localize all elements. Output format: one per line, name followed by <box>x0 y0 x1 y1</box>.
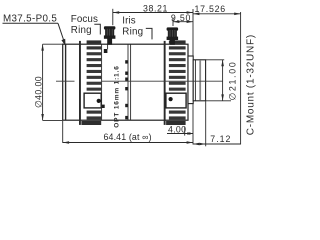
svg-text:64.41 (at ∞): 64.41 (at ∞) <box>104 132 152 142</box>
label Focus Ring <box>71 14 101 36</box>
dimension 4.00 <box>167 125 193 136</box>
image plane line <box>240 12 242 144</box>
svg-text:17.526: 17.526 <box>195 4 226 14</box>
focus ring <box>79 40 101 125</box>
svg-text:7.12: 7.12 <box>210 134 231 144</box>
label Iris Ring <box>122 15 152 39</box>
dimension dia 40.00 <box>34 44 63 120</box>
screw index line <box>107 45 109 50</box>
dimension dia 21.00 <box>206 60 238 101</box>
dimension 38.21 <box>113 4 193 26</box>
centerline <box>56 80 223 82</box>
svg-text:OPT 16mm 1:1.6: OPT 16mm 1:1.6 <box>113 65 120 127</box>
svg-text:M37.5-P0.5: M37.5-P0.5 <box>3 13 57 24</box>
svg-text:C-Mount (1-32UNF): C-Mount (1-32UNF) <box>246 34 257 135</box>
main barrel body <box>63 44 188 120</box>
svg-text:∅21.00: ∅21.00 <box>228 61 238 101</box>
dimension 7.12 <box>193 101 241 146</box>
svg-text:Focus: Focus <box>71 14 98 25</box>
iris ring <box>164 40 186 125</box>
aperture scale marks <box>125 60 128 119</box>
svg-text:Ring: Ring <box>122 27 143 38</box>
flange face extension line <box>192 9 194 56</box>
svg-text:Iris: Iris <box>122 15 135 26</box>
dimension 17.526 <box>193 4 241 15</box>
barrel section line after focus ring <box>101 44 103 120</box>
iris lock screw <box>167 27 179 44</box>
label M37.5-P0.5 <box>3 13 66 46</box>
index mark below screw <box>104 49 108 53</box>
mid barrel boundary lines <box>127 44 129 120</box>
svg-text:∅40.00: ∅40.00 <box>34 76 44 108</box>
svg-text:Ring: Ring <box>71 25 92 36</box>
rear step ring <box>188 56 193 104</box>
barrel index mark <box>102 105 105 108</box>
dimension 64.41 <box>63 121 193 144</box>
front rim line (filter thread M37.5) <box>65 44 67 120</box>
C-mount thread <box>193 60 205 101</box>
focus lock screw <box>104 26 116 45</box>
dimension 9.50 <box>171 13 193 26</box>
